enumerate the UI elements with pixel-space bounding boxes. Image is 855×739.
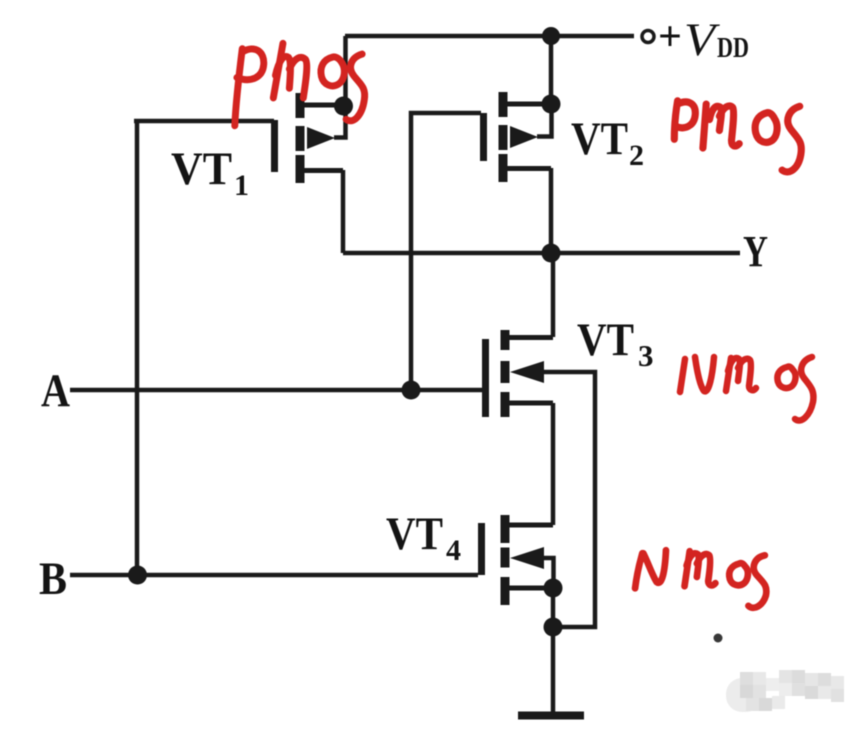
transistor VT4 (NMOS) (482, 515, 554, 605)
svg-text:3: 3 (638, 338, 654, 373)
wire: +VDD top rail (345, 34, 634, 39)
wire: VT3 bulk return to VT4 source node (535, 372, 595, 627)
junction dot: VT1 source / VDD rail (334, 97, 353, 116)
svg-text:+: + (658, 14, 682, 60)
svg-text:VT: VT (571, 113, 628, 165)
VDD terminal open circle (642, 31, 654, 43)
label +VDD (658, 14, 749, 66)
transistor VT1 (PMOS) (275, 93, 346, 183)
junction dot: VT4 source / bulk (544, 579, 563, 598)
svg-text:V: V (684, 14, 721, 66)
svg-text:4: 4 (446, 534, 461, 567)
svg-text:1: 1 (234, 169, 249, 202)
label VT3 (577, 314, 654, 373)
ground (518, 712, 584, 720)
label VT4 (386, 508, 461, 567)
svg-text:VT: VT (386, 508, 443, 560)
watermark (pixelated logo, bottom right) (726, 670, 844, 712)
wire: VT1 gate lead (134, 119, 274, 124)
wire: VT3 source to VT4 drain (551, 403, 556, 525)
wire: input A (70, 388, 482, 393)
wire: VDD branch down to VT2 source (549, 36, 554, 104)
svg-text:A: A (41, 365, 70, 417)
wire: input B (70, 573, 478, 578)
annotation: handwritten PMOS near VT2 (red) (674, 101, 801, 172)
stray ink dot (714, 634, 723, 643)
junction dot: top rail / VT2 source branch (542, 27, 560, 45)
annotation: handwritten NMOS near VT4 (red) (635, 550, 766, 608)
wire: down to ground (551, 627, 556, 712)
transistor VT2 (PMOS) (484, 92, 552, 182)
annotation: handwritten NMOS near VT3 (red) (680, 357, 813, 420)
wire: left bus from VT1 gate down to input B (135, 121, 140, 575)
svg-text:DD: DD (717, 33, 749, 64)
label VT1 (171, 143, 249, 202)
junction dot: B / left bus (128, 566, 147, 585)
junction dot: VT2 source / VDD branch (542, 95, 561, 114)
svg-text:2: 2 (629, 139, 644, 172)
svg-text:B: B (39, 553, 67, 605)
junction dot: A / VT2 gate branch (402, 381, 421, 400)
transistor VT3 (NMOS) (486, 330, 554, 417)
annotation: handwritten PMOS near VT1 (red) (235, 43, 365, 125)
wire: output node Y (343, 251, 740, 256)
wire: Y node down to VT3 drain (551, 253, 556, 337)
wire: VT2 gate branch from input A (411, 113, 481, 390)
junction dot: Y / VT2 drain / VT3 drain (542, 244, 561, 263)
svg-text:Y: Y (743, 227, 768, 276)
wire: VT1 drain down to Y node (341, 170, 346, 253)
svg-text:VT: VT (171, 143, 232, 195)
label VT2 (571, 113, 644, 172)
wire: VT4 source chain down (551, 588, 556, 627)
wire: VT2 drain down to Y node (549, 168, 554, 253)
wire: top rail left drop to VT1 source node (343, 36, 348, 104)
junction dot: source chain / VT3 bulk return (544, 618, 563, 637)
svg-text:VT: VT (577, 314, 634, 366)
